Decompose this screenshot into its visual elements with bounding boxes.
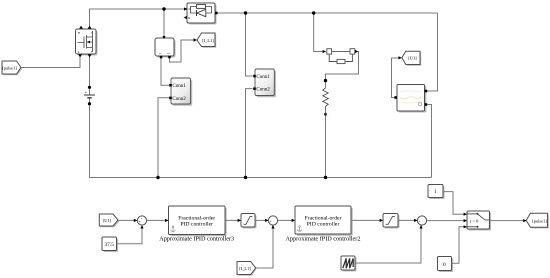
wire resistor top stub xyxy=(325,81,327,88)
svg-text:[I_L1]: [I_L1] xyxy=(202,38,214,43)
saturation block 1 xyxy=(241,214,257,229)
parallel RLC branch xyxy=(323,49,359,64)
junction node top bus at measurement xyxy=(162,7,165,10)
svg-text:Conn2: Conn2 xyxy=(172,97,186,102)
m port chevron xyxy=(184,16,187,19)
wire bottom bus xyxy=(90,177,432,179)
mosfet symbol xyxy=(78,31,93,52)
resistor R (series RLC branch) xyxy=(323,79,329,116)
wire battery column xyxy=(89,56,91,95)
fractional-order PID controller block 2 xyxy=(295,206,353,236)
wire measurement bottom to Conn1 of subsystem1 xyxy=(161,57,169,85)
svg-text:( > 0: ( > 0 xyxy=(470,219,479,224)
wire sat1 to sum2 xyxy=(255,219,268,221)
wire battery to bottom bus xyxy=(89,98,91,178)
svg-text:Approximate fPID controller3: Approximate fPID controller3 xyxy=(159,236,234,243)
fractional-order PID controller block 1 xyxy=(169,206,227,236)
cathode port nub xyxy=(215,12,218,15)
goto tag U1 (right) xyxy=(398,51,421,65)
saturation block 2 xyxy=(383,214,400,229)
From tag I_L1 (bottom) xyxy=(237,262,257,276)
output port nub bottom-right xyxy=(168,56,171,59)
goto tag I_L1 (top) xyxy=(194,33,217,48)
junction node bottom bus at Conn2 sub2 xyxy=(244,176,247,179)
wire Conn2 of subsystem2 to bottom bus xyxy=(246,89,253,178)
wire I_L1 to sum2 bottom xyxy=(256,227,273,269)
svg-text:Conn1: Conn1 xyxy=(172,84,186,89)
snubber and diode icon xyxy=(189,7,212,14)
svg-text:Approximate fPID controller2: Approximate fPID controller2 xyxy=(286,236,361,243)
goto tag pulse1 (output) xyxy=(526,213,549,228)
subsystem Conn1/Conn2 #1 xyxy=(169,78,192,106)
wire sat2 to sum3 xyxy=(398,219,417,221)
From tag U1 (bottom) xyxy=(99,214,119,227)
junction node bottom bus at resistor xyxy=(324,176,327,179)
wire measurement output to goto I_L1 xyxy=(170,40,196,62)
svg-text:PID controller: PID controller xyxy=(180,221,213,227)
battery subsystem block xyxy=(394,85,427,113)
wire sum2 to PID2 xyxy=(278,219,294,221)
svg-text:[U1]: [U1] xyxy=(103,218,112,223)
svg-text:+: + xyxy=(85,90,88,95)
junction node top bus at Conn1 sub2 xyxy=(244,11,247,14)
wire battery-block right-bottom port to bottom bus xyxy=(426,105,432,178)
wire constant0 to switch port3 xyxy=(452,227,467,263)
svg-text:[pulse1]: [pulse1] xyxy=(2,65,17,70)
sum block 2 xyxy=(268,216,277,228)
wire PID1 to saturation1 xyxy=(225,219,240,221)
svg-text:PID controller: PID controller xyxy=(307,221,340,227)
wire top bus to RLC branch left port xyxy=(314,13,323,52)
input arrow top xyxy=(162,36,165,39)
current measurement block xyxy=(155,36,176,58)
wire PID2 to saturation2 xyxy=(351,219,382,221)
anode arrow xyxy=(184,7,188,10)
constant 37.5 xyxy=(102,237,118,252)
DC source V1 (battery) xyxy=(84,86,95,106)
repeating sequence (sawtooth) block xyxy=(341,256,357,272)
wire RLC branch right port to resistor top xyxy=(326,52,359,81)
MOSFET Q1 xyxy=(76,26,98,58)
port g bottom-left triangle xyxy=(78,54,82,57)
constant 0 xyxy=(438,257,454,273)
wire 37.5 to sum1 bottom xyxy=(117,227,143,244)
wire sum3 to switch port2 xyxy=(427,220,466,222)
anchor badge 2 xyxy=(297,226,302,232)
junction node top bus at RLC xyxy=(312,11,315,14)
wire diode node down to measurement block xyxy=(163,9,165,37)
port top-right triangle xyxy=(88,26,92,29)
svg-text:0: 0 xyxy=(443,262,446,268)
svg-text:m: m xyxy=(78,32,80,35)
wire U1 tag to sum1 xyxy=(118,219,136,221)
svg-text:[pulse1]: [pulse1] xyxy=(532,218,547,223)
wire top bus left (MOSFET drain to diode anode) xyxy=(90,9,186,29)
sum block 3 xyxy=(417,216,426,228)
wire switch to goto pulse1 xyxy=(490,220,526,222)
port d top-left triangle xyxy=(79,26,83,29)
From tag pulse1 xyxy=(2,61,22,75)
sum block 1 xyxy=(137,216,146,225)
diode D1 xyxy=(184,3,218,25)
wire resistor bottom to bottom bus xyxy=(325,109,327,178)
junction node bottom bus at Conn2 sub1 xyxy=(156,176,159,179)
wire gate from pulse1 tag xyxy=(21,57,80,68)
svg-text:s: s xyxy=(91,51,92,54)
wire Conn2 of subsystem1 to bottom bus xyxy=(158,98,170,178)
wire constant1 to switch port1 xyxy=(443,192,466,215)
wire top bus right (diode cathode rightward) xyxy=(216,12,438,14)
svg-text:Conn2: Conn2 xyxy=(256,88,270,93)
anchor badge xyxy=(171,226,176,232)
constant 1 xyxy=(428,185,445,200)
svg-text:37.5: 37.5 xyxy=(104,242,114,248)
wire sum1 to PID1 xyxy=(147,219,168,221)
port s bottom-right triangle xyxy=(88,54,92,57)
subsystem Conn1/Conn2 #2 xyxy=(253,69,276,97)
bottom-left port nub xyxy=(160,56,163,59)
svg-text:[I_L1]: [I_L1] xyxy=(239,266,251,271)
svg-text:Conn1: Conn1 xyxy=(256,75,270,80)
svg-text:1: 1 xyxy=(434,189,437,195)
wire top bus to Conn1 of subsystem2 xyxy=(246,13,253,76)
wire sawtooth to sum3 bottom xyxy=(355,227,421,264)
wire battery-block left port to goto U1 xyxy=(392,58,401,98)
svg-text:[U1]: [U1] xyxy=(408,56,417,61)
wire right drop to battery-block right-top port xyxy=(426,13,438,91)
switch block xyxy=(467,211,491,231)
